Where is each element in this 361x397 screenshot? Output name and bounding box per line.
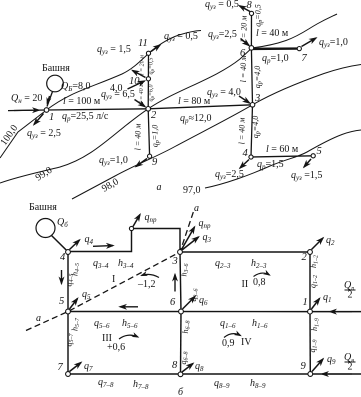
arrow Qp/2 into 1: [330, 311, 352, 313]
node 2: [146, 107, 151, 112]
tower-b drop: [52, 236, 68, 251]
q5: [70, 299, 78, 310]
contour 99,0: [0, 14, 337, 183]
wire 6-8: [180, 312, 183, 375]
svg-text:Башня: Башня: [29, 202, 57, 213]
wire 10-11: [147, 53, 149, 79]
svg-text:l = 40 м: l = 40 м: [138, 83, 145, 103]
wire 2-3: [148, 105, 252, 109]
contour 100,0: [0, 31, 201, 159]
svg-text:l = 40 м: l = 40 м: [134, 124, 143, 151]
node 5b: [66, 309, 71, 314]
svg-text:qр=1,0: qр=1,0: [262, 53, 289, 65]
wire 2-9: [148, 109, 149, 156]
node arrow q5 out: [304, 159, 311, 167]
flow 6->3 up: [174, 275, 176, 292]
ring II arc: [254, 273, 270, 276]
flow 4->5 down: [61, 270, 63, 284]
wire 3-4: [251, 105, 253, 157]
svg-text:5: 5: [317, 146, 322, 157]
svg-text:2: 2: [151, 110, 157, 121]
svg-text:3: 3: [172, 256, 178, 267]
q_pr node3: [182, 227, 195, 250]
flow arrow Qn into node 1: [14, 109, 39, 111]
water tower A: [47, 75, 64, 92]
node arrow q10 in lowleft: [128, 81, 145, 89]
svg-text:4,0: 4,0: [110, 83, 123, 94]
svg-text:7: 7: [58, 362, 64, 373]
svg-text:l = 100 м: l = 100 м: [63, 96, 101, 107]
q8: [182, 364, 193, 373]
svg-text:2: 2: [302, 252, 308, 263]
corner circle: [129, 226, 133, 230]
node arrow q1 out: [34, 114, 44, 125]
tower drop line: [47, 92, 53, 107]
node 7: [297, 47, 301, 51]
node 1b: [308, 309, 313, 314]
svg-text:9: 9: [301, 361, 307, 372]
svg-text:9: 9: [152, 157, 158, 168]
svg-text:l = 40 м: l = 40 м: [239, 56, 248, 83]
node 5: [311, 154, 315, 158]
svg-text:–1,2: –1,2: [137, 279, 156, 290]
svg-text:4: 4: [60, 252, 66, 263]
svg-text:l = 40 м: l = 40 м: [256, 28, 289, 39]
wire bottom row: [68, 373, 361, 375]
wire 2-1: [309, 252, 311, 312]
wire 4-5: [251, 156, 313, 157]
node 3: [250, 103, 255, 108]
svg-text:qуз=1,0: qуз=1,0: [319, 37, 348, 49]
wire inflow to node 1: [8, 109, 47, 112]
water tower B: [36, 219, 55, 238]
node 7b: [66, 372, 71, 377]
nodes B: [66, 226, 313, 376]
svg-text:а: а: [36, 313, 41, 324]
q7: [70, 363, 82, 372]
svg-text:+0,6: +0,6: [107, 342, 125, 353]
svg-text:97,0: 97,0: [183, 185, 201, 196]
svg-text:l = 40 м: l = 40 м: [238, 118, 247, 145]
node 6: [249, 46, 254, 51]
svg-text:l = 20 м: l = 20 м: [140, 55, 146, 75]
svg-text:qр=1,5: qр=1,5: [257, 159, 284, 171]
svg-text:l = 20 м: l = 20 м: [240, 16, 249, 43]
q_pr corner: [133, 215, 140, 227]
node arrow q2 in: [135, 100, 146, 107]
svg-text:0,9: 0,9: [222, 338, 235, 349]
wire 6-3: [251, 48, 252, 105]
svg-text:l = 60 м: l = 60 м: [266, 144, 299, 155]
contour 98,0: [72, 65, 361, 200]
wire corner-3: [132, 229, 181, 253]
svg-text:8: 8: [172, 360, 178, 371]
q3: [182, 237, 199, 250]
svg-text:а: а: [157, 182, 162, 193]
svg-text:qуз=2,5: qуз=2,5: [208, 29, 237, 41]
svg-text:qуз =1,5: qуз =1,5: [291, 170, 322, 182]
svg-text:I: I: [112, 274, 115, 285]
node 8b: [178, 372, 183, 377]
ring IV arc: [224, 334, 241, 338]
flow 4->corner: [93, 245, 113, 248]
svg-text:2: 2: [348, 362, 353, 373]
svg-text:1: 1: [49, 112, 54, 123]
node arrow q8 out: [240, 6, 251, 12]
svg-text:qр≈12,0: qр≈12,0: [180, 113, 212, 125]
node arrow q9 out: [136, 159, 147, 167]
wire 1-9: [309, 312, 311, 374]
svg-text:5: 5: [59, 296, 64, 307]
node 10: [146, 77, 150, 81]
node arrow q11 out upright: [151, 45, 160, 52]
ring I arc: [142, 274, 160, 277]
wire 3-6: [180, 252, 181, 312]
labels B: [29, 202, 356, 397]
wire 4-5: [67, 252, 69, 312]
svg-text:3: 3: [254, 93, 260, 104]
q9: [312, 359, 323, 372]
svg-text:0,8: 0,8: [253, 277, 266, 288]
node 4: [249, 155, 253, 159]
node 4b: [66, 250, 71, 255]
wire mid row: [68, 311, 361, 313]
svg-text:8: 8: [247, 0, 253, 11]
node arrow q10 out upleft: [133, 71, 146, 78]
svg-text:QБ=8,0: QБ=8,0: [61, 81, 91, 93]
q4: [70, 240, 80, 250]
node 3b: [178, 250, 183, 255]
node 9: [148, 154, 152, 158]
svg-text:IV: IV: [241, 337, 252, 348]
svg-text:qуз=2,5: qуз=2,5: [215, 169, 244, 181]
svg-text:7: 7: [302, 53, 308, 64]
arrow Qn/2 into 9: [322, 373, 352, 375]
q6: [183, 297, 196, 310]
svg-text:4: 4: [243, 148, 249, 159]
svg-text:а: а: [194, 203, 199, 214]
wire 6-7: [251, 47, 299, 50]
svg-text:II: II: [242, 279, 249, 290]
q2: [312, 238, 324, 250]
wire 5-7: [67, 312, 69, 375]
node 2b: [308, 250, 313, 255]
svg-text:qуз=1,0: qуз=1,0: [99, 155, 128, 167]
nodes (open circles) A: [44, 11, 315, 159]
node arrow q4 out: [240, 160, 249, 169]
contour 97,0: [205, 130, 361, 188]
svg-text:l = 80 м: l = 80 м: [178, 96, 211, 107]
wire 2-10: [147, 79, 149, 109]
wire 1-2: [47, 109, 149, 110]
ring III arc: [119, 335, 138, 339]
flow arrow tower down: [47, 96, 49, 104]
svg-text:Башня: Башня: [42, 63, 70, 74]
q1: [312, 299, 320, 310]
node 1: [44, 108, 49, 113]
svg-text:11: 11: [138, 38, 148, 49]
node arrow q3 in: [239, 96, 250, 103]
wire 8-6: [250, 13, 252, 48]
wire top 4-corner: [68, 229, 132, 252]
section line a-a dashed: [26, 212, 194, 331]
svg-text:2: 2: [348, 290, 353, 301]
svg-text:Qн = 20: Qн = 20: [11, 93, 42, 105]
node 11: [146, 51, 150, 55]
node 6b: [179, 309, 184, 314]
flow 6->5 left: [120, 306, 138, 308]
node 9b: [308, 372, 313, 377]
svg-text:1: 1: [303, 297, 308, 308]
labels A: [0, 0, 348, 196]
svg-text:6: 6: [170, 297, 176, 308]
node 8: [249, 11, 253, 15]
node arrow q6 in: [241, 39, 250, 46]
node arrow q7 out: [302, 38, 317, 47]
wire 3-2: [180, 251, 310, 253]
